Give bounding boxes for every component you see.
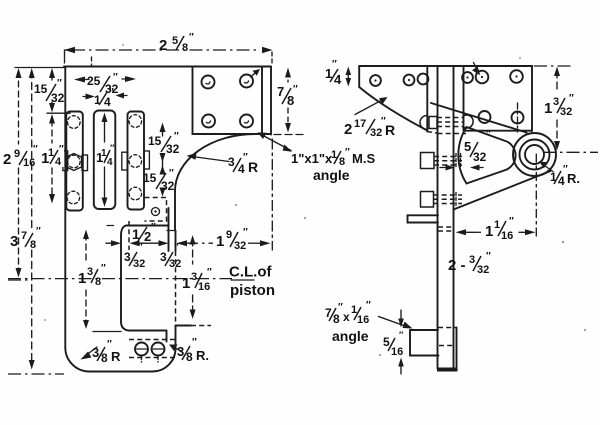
dimension 15/32 mid line (bolt rows) [162,126,164,136]
foot bottom (thick) [437,368,458,372]
hidden bolt strip bottom (dashed) [129,339,176,341]
column plate line 2 (full height) [437,66,439,369]
bar1 middle hex nut [67,154,82,171]
3/4R fillet arc [175,134,255,191]
svg-text:32: 32 [133,258,145,270]
svg-text:M.S: M.S [352,151,375,166]
svg-text:1: 1 [216,233,224,250]
svg-text:3: 3 [469,254,475,266]
neck small step [167,230,176,232]
svg-text:32: 32 [166,142,180,156]
svg-text:R.: R. [196,348,209,363]
svg-text:32: 32 [161,179,175,193]
bolt 2 shank hidden lines [434,156,462,158]
svg-text:8: 8 [101,351,108,365]
svg-text:″: ″ [486,129,491,140]
svg-text:angle: angle [332,328,369,344]
leader 7/8x1/16 angle [379,317,406,327]
dimension 1/4 arrows (bar2 width) [83,96,90,98]
neck top edge [126,225,168,227]
svg-text:4: 4 [55,156,62,168]
bar1 hidden hole row2 [68,155,81,168]
svg-text:32: 32 [169,258,181,270]
bolt 3 far end [455,193,457,207]
svg-text:32: 32 [477,264,489,276]
bolt 1 far nut [463,115,474,128]
svg-text:4: 4 [238,162,245,176]
svg-text:3: 3 [124,250,131,264]
center ticks on bottom bolt holes [142,357,159,363]
center line through bottom-right hole [517,103,519,132]
svg-text:16: 16 [23,157,35,169]
column outer-right line [463,66,465,131]
slotted bar 3 [128,112,145,210]
hole behind column left [418,74,429,85]
hidden dashes in column [438,226,453,228]
bar1 right nut tab [82,155,88,171]
lug inner edge [166,331,168,342]
scan speckles [44,44,586,356]
foot outer edge [456,328,458,370]
dimension 1 3/32 [556,71,558,90]
svg-text:32: 32 [370,127,382,139]
svg-text:″: ″ [207,267,212,278]
svg-text:32: 32 [560,106,572,118]
svg-text:9: 9 [14,148,20,160]
svg-text:4: 4 [558,174,565,188]
extension line at bar tops [47,112,70,114]
bolt 1 washer arc [420,116,427,130]
dimension 5/32 arrows [440,167,447,169]
center line of piston (vertical at right) [271,139,273,250]
svg-text:1: 1 [78,270,86,287]
dimension 1 1/4 left line [49,114,55,124]
bolt hole plate bottom-left [202,115,215,128]
svg-text:R.: R. [567,171,580,186]
hidden piece behind bars (dashed box) [145,198,167,222]
svg-text:2 -: 2 - [448,257,466,274]
dimension 1/2 neck [106,242,113,244]
leader 3/4R [192,157,229,162]
svg-text:R: R [385,122,395,138]
boss bore [525,145,544,164]
leader 1/4R [543,165,553,172]
slotted bar 2 (front) [94,111,116,210]
svg-text:7: 7 [277,84,284,99]
boss horizontal center line [543,151,598,153]
svg-text:8: 8 [182,42,188,54]
svg-text:″: ″ [169,168,174,179]
svg-text:8: 8 [186,350,193,364]
bar2 internal dimension line [104,117,106,142]
hole behind column right [462,72,473,83]
gusset D-shaped cutout [458,127,515,184]
bolt 3 head [421,192,434,208]
svg-text:″: ″ [332,59,337,70]
bottom bolt hole right [152,343,165,356]
bolt 3 shank hidden lines [434,194,463,196]
bolt 1 shank hidden lines [437,117,464,119]
svg-text:1: 1 [182,275,190,292]
svg-text:1: 1 [485,223,493,240]
svg-text:15: 15 [148,134,162,148]
bar3 hidden hole row1 [129,115,142,128]
bar1 hidden hole row1 [68,116,81,129]
leader arrow at top-right hole [251,72,258,78]
svg-text:5: 5 [172,35,178,47]
right plate right edge [531,66,533,131]
right plate hole top-left [476,71,489,84]
dimension 1 1/16 [456,229,467,235]
right plate hole top-right [510,70,523,83]
bolt 2 head [421,153,435,169]
svg-text:″: ″ [151,222,156,233]
svg-text:25: 25 [87,74,101,88]
bottom bolt hole left [135,343,148,356]
leader 3/8R left [85,347,97,356]
tab on column left [408,215,439,222]
svg-text:16: 16 [357,314,369,326]
M.S angle plate inner right edge [261,67,263,134]
svg-text:3: 3 [191,271,197,283]
svg-text:″: ″ [192,337,197,348]
plate bottom edge [193,133,272,135]
step line right of lug [176,325,192,327]
svg-text:32: 32 [234,240,246,252]
svg-text:5: 5 [464,139,471,154]
svg-text:16: 16 [391,346,403,358]
svg-text:″: ″ [110,143,115,153]
bolt hole plate top-left [202,76,215,89]
right plate bottom edge [464,130,532,132]
svg-text:′′: ′′ [509,216,514,227]
svg-text:″: ″ [109,87,114,98]
svg-text:″: ″ [243,227,248,238]
small hole in hidden piece [152,208,160,216]
bar3 hidden hole row2 [129,155,142,168]
svg-text:4: 4 [334,72,342,87]
right plate hole bottom-right [512,112,524,124]
horizontal piston center line [8,278,232,280]
boss outer 1/4R circle [513,133,556,176]
lug outer edge with 3/8R fillet [153,326,176,372]
gusset top slanted edge [431,103,527,133]
svg-text:3: 3 [87,266,93,278]
svg-text:32: 32 [473,150,487,164]
svg-text:″: ″ [57,78,62,89]
svg-text:″: ″ [399,330,404,340]
dimension 1/4 plate thickness [346,67,352,76]
hidden lines at foot [438,327,456,329]
svg-text:C.L.of: C.L.of [229,264,272,281]
bolt 2 far end [455,154,457,168]
svg-text:″: ″ [174,242,179,253]
svg-text:8: 8 [95,276,101,288]
dimension 1 3/8 line [85,234,87,260]
svg-text:2: 2 [159,37,167,54]
svg-text:1: 1 [544,100,552,117]
label 1 1/4 left (white gap on dim line) [39,144,64,167]
svg-text:″: ″ [293,84,298,95]
bottom-left 3/8R corner and bottom edge [65,348,152,372]
bolt hole plate top-right [240,75,253,88]
bracket top edge with left extension [15,67,65,69]
hidden line column to gusset [427,132,437,134]
svg-text:R: R [111,349,121,364]
svg-text:8: 8 [287,93,294,108]
leader M.S angle to plate corner [263,136,291,151]
dimension 2 5/8 top [72,49,258,51]
bracket left edge [64,67,66,348]
bar1 left nut tab [63,151,68,171]
bolt 1 head [429,117,437,129]
bolt hole plate bottom-right [240,115,253,128]
svg-text:angle: angle [313,167,350,183]
dimension 15/32 top-left line [51,72,53,80]
2 17/32 R curved edge [359,87,427,131]
svg-text:15: 15 [34,82,48,96]
dimension 1 3/16 line [192,239,194,264]
top flange hole 2 [404,75,415,86]
M.S angle plate left edge [192,67,194,134]
top plate edge [359,65,532,67]
centerline stub above top edge [91,57,93,66]
svg-text:″: ″ [569,93,574,104]
svg-text:16: 16 [501,230,513,242]
svg-text:″: ″ [101,263,106,274]
hidden edge left of neck (dashed) [128,221,130,250]
svg-text:″: ″ [174,131,179,142]
bottom dash-dot extension line [8,373,64,375]
bar3 left nut tab [122,152,128,170]
svg-text:″: ″ [345,147,350,158]
neck outline with fillets [121,226,167,331]
edge below arc [174,191,176,231]
dimension 25/32 arrows [74,77,85,83]
svg-text:″: ″ [113,72,118,83]
leader arrow into top hole [474,63,478,71]
svg-text:9: 9 [226,229,232,241]
svg-text:″: ″ [33,144,38,155]
right leg edge [175,231,177,252]
bar3 hidden hole row3 [129,187,142,200]
svg-text:2: 2 [3,151,11,168]
svg-text:″: ″ [189,32,194,43]
svg-text:4: 4 [107,157,113,168]
dimension 5/16 arrows [400,310,402,318]
leader 3/8R right [174,348,182,352]
hidden edge right of neck [168,208,170,251]
svg-text:″: ″ [366,300,371,311]
bar1 hidden hole row3 [67,191,80,204]
svg-text:3: 3 [553,96,559,108]
svg-text:″: ″ [59,144,64,155]
column outer-left line [426,66,428,132]
svg-text:piston: piston [230,282,275,299]
leader 2 17/32 R [355,100,383,115]
bar3 right nut tab [144,151,149,169]
svg-text:1: 1 [494,219,500,231]
svg-text:16: 16 [198,281,210,293]
svg-text:17: 17 [354,118,366,130]
svg-text:1"x1"x: 1"x1"x [291,151,333,166]
boss bushing ring [520,140,550,170]
svg-text:2: 2 [344,121,352,138]
svg-text:3: 3 [160,250,167,264]
svg-text:5: 5 [383,335,390,349]
label 1 1/4 bar2 [95,143,114,166]
svg-text:3: 3 [10,233,18,250]
svg-text:15: 15 [143,171,157,185]
right plate hole bottom-left [479,111,491,123]
top plate left corner [358,66,360,87]
svg-text:7: 7 [21,230,27,242]
boss vertical center line [535,154,537,238]
svg-text:32: 32 [51,91,65,105]
dimension 2 9/16 line [18,71,20,144]
svg-text:8: 8 [30,239,36,251]
gusset bottom slanted edge [454,171,551,210]
svg-text:R: R [248,159,258,175]
svg-text:3: 3 [228,155,235,169]
svg-text:″: ″ [138,242,143,253]
column plate line 3 (full height) [453,66,455,369]
svg-text:x: x [343,310,350,324]
svg-text:1: 1 [94,93,101,107]
top flange hole 1 [370,75,381,86]
bracket right edge [270,67,272,135]
svg-text:8: 8 [333,312,340,326]
svg-text:″: ″ [486,251,491,262]
dimension 1 9/32 [177,240,188,246]
dimension 3 7/8 line [31,71,33,228]
angle bracket at foot (Z shape) [410,330,439,356]
slotted bar 1 [66,112,83,211]
dimension 7/8 right line [287,71,289,82]
svg-text:″: ″ [36,226,41,237]
